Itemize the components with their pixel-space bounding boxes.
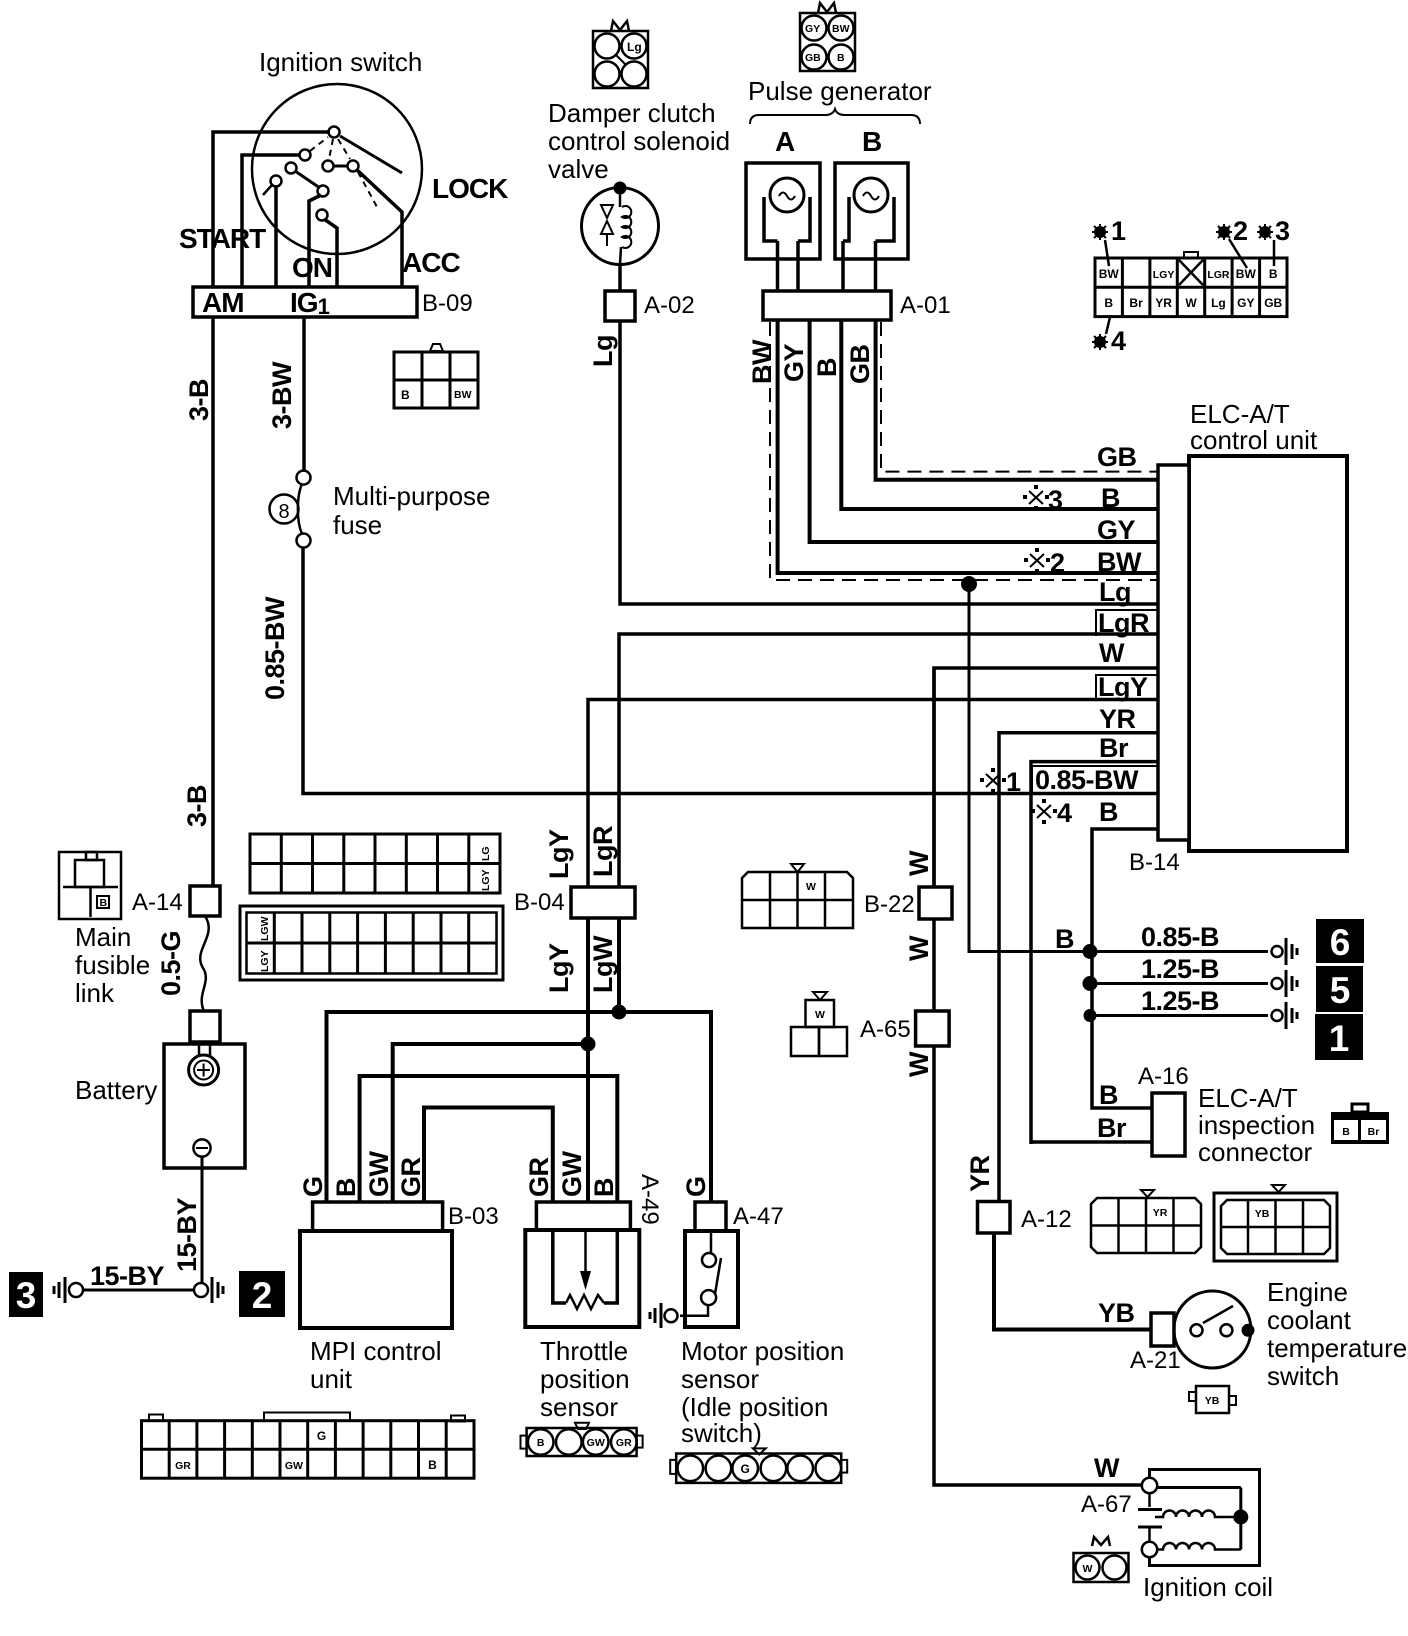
wire 0.85-BW from fuse to control unit xyxy=(303,547,1158,794)
junction dot row 1 xyxy=(1084,1009,1097,1022)
wire W row xyxy=(934,668,1158,887)
battery xyxy=(164,1042,245,1168)
wire from T4 to B-09 xyxy=(274,186,278,288)
damper clutch control solenoid valve symbol xyxy=(582,182,659,265)
connector A-16 xyxy=(1152,1093,1185,1156)
ignition switch contact T8 (IG1) xyxy=(317,210,328,221)
ignition switch body xyxy=(252,84,422,254)
ignition switch rotor arm (LOCK position) xyxy=(340,136,402,173)
svg-text:GB: GB xyxy=(1097,442,1137,472)
svg-text:LGY: LGY xyxy=(480,869,492,891)
svg-text:YB: YB xyxy=(1098,1298,1135,1328)
svg-text:YB: YB xyxy=(1255,1208,1270,1220)
svg-text:valve: valve xyxy=(548,154,609,184)
svg-text:LgY: LgY xyxy=(1098,672,1148,702)
svg-text:B-14: B-14 xyxy=(1129,849,1180,876)
svg-text:GY: GY xyxy=(1097,515,1136,545)
svg-text:A-02: A-02 xyxy=(644,292,695,319)
ignition switch dashed positions xyxy=(310,137,377,207)
svg-text:1.25-B: 1.25-B xyxy=(1141,954,1219,984)
ground 2 junction xyxy=(194,1283,208,1297)
connector A-21 xyxy=(1151,1313,1174,1346)
connector A-02 xyxy=(605,291,635,321)
daisy mark 2 xyxy=(1216,216,1248,268)
svg-text:A-47: A-47 xyxy=(733,1203,784,1230)
svg-text:control unit: control unit xyxy=(1190,425,1318,455)
svg-text:Ignition switch: Ignition switch xyxy=(259,47,422,77)
connector A-12 xyxy=(978,1202,1011,1234)
svg-text:Motor position: Motor position xyxy=(681,1336,844,1366)
ground marker box 2 xyxy=(239,1271,285,1317)
wire BW from A-01 xyxy=(778,320,1158,573)
ref mark x3 xyxy=(1023,485,1049,510)
connector B-09 bar xyxy=(193,287,417,317)
svg-text:GW: GW xyxy=(285,1460,303,1472)
junction dot LgW/G xyxy=(612,1005,627,1020)
svg-text:A-01: A-01 xyxy=(900,292,951,319)
ground symbol 1 xyxy=(1272,1002,1298,1029)
ignition switch contact T5 xyxy=(323,161,334,172)
wire IG1 from T8 to B-09 xyxy=(324,219,337,288)
switch link T3-T7 xyxy=(295,171,320,188)
ground 3 junction xyxy=(69,1283,83,1297)
motor sensor connector icon xyxy=(670,1448,847,1483)
connector A-01 bar xyxy=(763,291,891,320)
ignition switch contact T3 xyxy=(286,163,297,174)
svg-text:Lg: Lg xyxy=(588,335,618,367)
svg-text:YR: YR xyxy=(965,1155,995,1192)
svg-text:fusible: fusible xyxy=(75,950,150,980)
wire solenoid to A-02 xyxy=(618,264,622,291)
svg-text:B: B xyxy=(812,358,842,377)
svg-text:LGY: LGY xyxy=(259,950,271,972)
svg-text:W: W xyxy=(1083,1563,1093,1575)
svg-text:GY: GY xyxy=(1237,296,1254,310)
svg-text:3: 3 xyxy=(16,1275,37,1316)
svg-text:temperature: temperature xyxy=(1267,1333,1407,1363)
ignition coil xyxy=(1138,1470,1260,1566)
svg-text:position: position xyxy=(540,1364,630,1394)
multi-purpose fuse no.8 xyxy=(270,471,311,548)
svg-text:GB: GB xyxy=(845,344,875,384)
wire LgR from B-04 to control unit xyxy=(619,634,1158,886)
wire B from A-01 xyxy=(841,320,1158,509)
ground marker box 1 xyxy=(1315,1014,1363,1060)
svg-text:LG: LG xyxy=(480,846,492,861)
svg-text:sensor: sensor xyxy=(540,1392,618,1422)
svg-text:GB: GB xyxy=(805,52,821,64)
wire W vertical through B-22 and A-65 xyxy=(934,668,1144,1485)
svg-text:3: 3 xyxy=(1048,485,1063,515)
connector A-47 xyxy=(695,1202,726,1231)
wire 3-B vertical xyxy=(211,317,215,886)
svg-text:8: 8 xyxy=(278,501,289,523)
svg-text:sensor: sensor xyxy=(681,1364,759,1394)
wire G run MPI to A-47 xyxy=(327,1012,712,1202)
svg-text:B: B xyxy=(537,1437,545,1449)
svg-text:Br: Br xyxy=(1099,733,1129,763)
svg-text:switch: switch xyxy=(1267,1361,1339,1391)
svg-text:6: 6 xyxy=(1330,922,1351,963)
ground symbol 6 xyxy=(1272,938,1298,965)
ELC-A/T control unit box xyxy=(1189,456,1347,851)
svg-text:BW: BW xyxy=(1097,547,1142,577)
inspection connector icon B/Br xyxy=(1331,1104,1389,1144)
svg-text:LOCK: LOCK xyxy=(432,173,508,204)
svg-text:2: 2 xyxy=(252,1275,273,1316)
wire 0.5-G squiggle xyxy=(200,916,209,1011)
svg-text:W: W xyxy=(1185,296,1197,310)
svg-text:0.5-G: 0.5-G xyxy=(156,931,186,996)
ignition switch contact T7 (ON) xyxy=(318,186,329,197)
svg-text:GW: GW xyxy=(587,1437,605,1449)
svg-text:BW: BW xyxy=(747,339,777,384)
svg-text:LGW: LGW xyxy=(259,916,271,941)
svg-text:Damper clutch: Damper clutch xyxy=(548,98,716,128)
main fusible link icon xyxy=(59,852,121,919)
wire 15-BY from battery xyxy=(201,1157,204,1283)
svg-text:3-BW: 3-BW xyxy=(267,361,297,429)
ground marker box 5 xyxy=(1316,966,1363,1012)
shield drain wire xyxy=(969,584,1268,952)
ignition switch contact T4 xyxy=(271,176,282,187)
wire AM from T1 to B-09 xyxy=(213,132,330,288)
wire from T2 to B-09 xyxy=(242,155,300,288)
pin table 2 (mid left, double border) xyxy=(240,906,503,980)
svg-text:B-22: B-22 xyxy=(864,891,915,918)
pulse generator connector icon xyxy=(800,3,855,71)
svg-text:B: B xyxy=(401,388,410,402)
junction dot row 5 xyxy=(1083,976,1098,991)
wire GW run MPI xyxy=(393,1044,586,1202)
svg-text:0.85-BW: 0.85-BW xyxy=(1035,765,1139,795)
ground marker box 6 xyxy=(1316,919,1364,963)
shield dashed right xyxy=(881,322,1158,472)
svg-text:ACC: ACC xyxy=(402,247,460,278)
ignition switch contact T2 xyxy=(300,150,311,161)
switch link T5-T6 xyxy=(333,165,348,168)
svg-text:YB: YB xyxy=(1205,1395,1220,1407)
svg-text:connector: connector xyxy=(1198,1137,1313,1167)
svg-text:B: B xyxy=(1099,1080,1118,1110)
wire 15-BY to ground 3 xyxy=(83,1289,194,1292)
connector B-03 bar xyxy=(313,1202,443,1231)
svg-text:fuse: fuse xyxy=(333,510,382,540)
svg-text:Pulse generator: Pulse generator xyxy=(748,76,932,106)
connector A-65 xyxy=(916,1011,950,1046)
svg-text:W: W xyxy=(806,881,816,893)
connector A-65 pin icon xyxy=(791,992,847,1056)
svg-text:B: B xyxy=(428,1458,437,1472)
wire ACC from T6 to B-09 xyxy=(356,169,402,288)
svg-text:inspection: inspection xyxy=(1198,1110,1315,1140)
connector B-14 strip xyxy=(1158,465,1189,840)
svg-text:GY: GY xyxy=(779,343,809,382)
svg-text:AM: AM xyxy=(202,287,244,318)
svg-text:3: 3 xyxy=(1275,216,1290,246)
motor sensor ground xyxy=(650,1303,678,1328)
svg-text:GY: GY xyxy=(805,23,820,35)
wire Lg from A-02 to control unit xyxy=(620,321,1158,604)
svg-text:W: W xyxy=(904,850,934,876)
throttle sensor connector icon xyxy=(521,1423,643,1456)
svg-text:4: 4 xyxy=(1111,326,1126,356)
svg-text:B: B xyxy=(1099,797,1118,827)
svg-text:link: link xyxy=(75,978,115,1008)
battery connector block xyxy=(190,1011,220,1042)
wire B row to ground network xyxy=(1092,829,1158,1108)
brace xyxy=(750,109,920,124)
svg-text:GR: GR xyxy=(396,1157,426,1197)
svg-text:START: START xyxy=(179,223,266,254)
svg-text:A-12: A-12 xyxy=(1021,1206,1072,1233)
daisy mark 4 xyxy=(1092,317,1126,356)
row label 0.85-BW boxed xyxy=(1032,766,1158,793)
pin table bottom left xyxy=(142,1413,475,1479)
svg-text:switch): switch) xyxy=(681,1418,762,1448)
svg-text:B: B xyxy=(331,1178,361,1197)
throttle position sensor box xyxy=(525,1230,639,1327)
svg-text:Lg: Lg xyxy=(1211,296,1226,310)
ground 2 symbol xyxy=(212,1277,223,1303)
svg-text:G: G xyxy=(741,1462,750,1476)
svg-text:Lg: Lg xyxy=(627,40,642,54)
svg-text:3-B: 3-B xyxy=(182,785,212,827)
svg-text:YR: YR xyxy=(1153,1207,1168,1219)
svg-text:GR: GR xyxy=(616,1437,632,1449)
svg-text:YR: YR xyxy=(1099,704,1136,734)
daisy mark 1 xyxy=(1092,216,1126,266)
svg-text:Multi-purpose: Multi-purpose xyxy=(333,481,491,511)
connector A-14 xyxy=(190,886,220,916)
svg-text:0.85-BW: 0.85-BW xyxy=(260,596,290,700)
ground marker box 3 xyxy=(9,1272,43,1317)
damper clutch connector icon xyxy=(593,21,648,88)
pin table 1 (mid left) xyxy=(250,834,500,893)
svg-text:GR: GR xyxy=(524,1157,554,1197)
svg-text:YR: YR xyxy=(1155,296,1172,310)
svg-text:15-BY: 15-BY xyxy=(90,1261,165,1291)
svg-text:B-09: B-09 xyxy=(422,290,473,317)
svg-text:BW: BW xyxy=(1236,267,1257,281)
pin table top row labels xyxy=(1099,267,1278,281)
svg-text:G: G xyxy=(681,1176,711,1197)
ref mark x1 xyxy=(980,768,1006,793)
svg-text:MPI control: MPI control xyxy=(310,1336,442,1366)
motor position sensor box xyxy=(680,1231,738,1327)
junction dot LgY/GW xyxy=(581,1037,596,1052)
svg-text:BW: BW xyxy=(832,23,850,35)
pulse generator A xyxy=(746,163,820,291)
connector B-09 pin face table xyxy=(394,344,478,408)
svg-text:A-49: A-49 xyxy=(636,1174,663,1225)
svg-text:W: W xyxy=(904,935,934,961)
svg-text:B-04: B-04 xyxy=(514,889,565,916)
svg-text:Br: Br xyxy=(1368,1126,1380,1138)
svg-text:BW: BW xyxy=(1099,267,1120,281)
connector A-49 bar xyxy=(536,1202,630,1230)
svg-text:15-BY: 15-BY xyxy=(172,1197,202,1272)
wire LgY from B-04 to control unit xyxy=(588,700,1158,887)
wire YB from A-12 to A-21 xyxy=(994,1233,1152,1330)
ignition coil connector icon xyxy=(1074,1537,1129,1582)
wire YR row xyxy=(999,733,1158,1200)
wire GB from A-01 xyxy=(876,320,1158,480)
svg-text:W: W xyxy=(1099,638,1125,668)
svg-text:control solenoid: control solenoid xyxy=(548,126,730,156)
switch stub at T4 xyxy=(263,185,272,195)
wire 3-BW vertical xyxy=(302,317,306,471)
svg-text:1: 1 xyxy=(1329,1018,1350,1059)
connector B-22 pin icon xyxy=(742,864,853,928)
svg-text:A-65: A-65 xyxy=(860,1016,911,1043)
wire GR run MPI to throttle xyxy=(424,1108,553,1203)
connector B-22 xyxy=(919,887,952,919)
svg-text:BW: BW xyxy=(454,389,472,401)
svg-text:B: B xyxy=(1269,267,1278,281)
svg-text:GW: GW xyxy=(557,1150,587,1197)
ignition switch contact T1 (AM) xyxy=(329,127,340,138)
svg-text:B: B xyxy=(100,897,108,909)
svg-text:A-14: A-14 xyxy=(132,889,183,916)
junction dot row 6 xyxy=(1083,944,1098,959)
ref mark x4 xyxy=(1031,799,1057,824)
wire 1.25-B row 1 xyxy=(1092,1014,1268,1017)
ground symbol 5 xyxy=(1272,970,1298,997)
svg-text:LgR: LgR xyxy=(588,826,618,877)
small YB connector icon xyxy=(1189,1386,1236,1413)
svg-text:Lg: Lg xyxy=(1099,577,1131,607)
svg-text:1.25-B: 1.25-B xyxy=(1141,986,1219,1016)
svg-text:ELC-A/T: ELC-A/T xyxy=(1198,1083,1298,1113)
svg-text:Main: Main xyxy=(75,922,131,952)
connector B-04 xyxy=(571,887,635,918)
engine coolant temperature switch xyxy=(1174,1291,1255,1368)
pin table bottom row labels xyxy=(1104,296,1282,310)
svg-text:A-67: A-67 xyxy=(1081,1491,1132,1518)
shield dashed left xyxy=(770,322,1158,580)
ignition switch contact T6 (ACC) xyxy=(348,161,359,172)
svg-text:GW: GW xyxy=(364,1150,394,1197)
daisy mark 3 xyxy=(1257,216,1290,266)
ref mark x2 xyxy=(1024,548,1050,573)
svg-text:ON: ON xyxy=(292,252,332,283)
svg-text:3-B: 3-B xyxy=(184,379,214,421)
svg-text:G: G xyxy=(317,1429,326,1443)
svg-text:W: W xyxy=(904,1051,934,1077)
svg-text:W: W xyxy=(1094,1453,1120,1483)
svg-text:B: B xyxy=(1342,1126,1350,1138)
wire B run MPI to throttle xyxy=(360,1076,618,1202)
wire Br row xyxy=(1031,762,1158,1144)
svg-text:B: B xyxy=(1055,924,1074,954)
svg-text:2: 2 xyxy=(1050,548,1065,578)
wire ON from T7 to B-09 xyxy=(309,195,321,288)
pulse generator B xyxy=(835,163,908,291)
svg-text:2: 2 xyxy=(1233,216,1248,246)
svg-text:A-16: A-16 xyxy=(1138,1063,1189,1090)
pin table top right xyxy=(1095,252,1287,317)
label box LgY xyxy=(1096,675,1158,699)
svg-text:unit: unit xyxy=(310,1364,353,1394)
svg-text:1: 1 xyxy=(1006,767,1021,797)
svg-text:GB: GB xyxy=(1264,296,1282,310)
wire LgW below B-04 xyxy=(617,918,621,1012)
svg-text:B: B xyxy=(1104,296,1113,310)
svg-text:Br: Br xyxy=(1129,296,1143,310)
ground 3 symbol xyxy=(54,1277,65,1303)
svg-text:B-03: B-03 xyxy=(448,1203,499,1230)
MPI control unit box xyxy=(300,1231,452,1328)
wire LgY below B-04 xyxy=(586,918,590,1202)
svg-text:G: G xyxy=(298,1176,328,1197)
label box LgR xyxy=(1096,610,1158,636)
shield drain tap dot xyxy=(961,576,977,592)
svg-text:LGY: LGY xyxy=(1153,269,1175,281)
wire 1.25-B row 5 xyxy=(1092,982,1268,985)
svg-text:W: W xyxy=(815,1009,825,1021)
svg-text:1: 1 xyxy=(1111,216,1126,246)
connector icon YB xyxy=(1214,1185,1337,1261)
svg-text:Br: Br xyxy=(1097,1113,1127,1143)
svg-text:Battery: Battery xyxy=(75,1075,157,1105)
svg-text:Ignition coil: Ignition coil xyxy=(1143,1572,1273,1602)
svg-text:LgW: LgW xyxy=(588,935,618,993)
svg-text:0.85-B: 0.85-B xyxy=(1141,922,1219,952)
svg-text:A-21: A-21 xyxy=(1130,1347,1181,1374)
svg-text:coolant: coolant xyxy=(1267,1305,1352,1335)
wire GY from A-01 xyxy=(810,320,1158,542)
svg-text:4: 4 xyxy=(1057,798,1072,828)
svg-text:B: B xyxy=(862,126,881,157)
svg-text:LGR: LGR xyxy=(1207,269,1230,281)
svg-text:GR: GR xyxy=(175,1460,191,1472)
svg-text:LgY: LgY xyxy=(544,829,574,879)
svg-text:B: B xyxy=(1101,483,1120,513)
svg-text:5: 5 xyxy=(1330,970,1351,1011)
svg-text:Engine: Engine xyxy=(1267,1277,1348,1307)
wire Br to A-16 xyxy=(1031,1140,1154,1144)
svg-text:LgY: LgY xyxy=(544,943,574,993)
svg-text:A: A xyxy=(775,126,795,157)
svg-text:Throttle: Throttle xyxy=(540,1336,628,1366)
connector icon YR xyxy=(1091,1190,1201,1253)
svg-text:B: B xyxy=(837,52,845,64)
svg-text:B: B xyxy=(589,1178,619,1197)
